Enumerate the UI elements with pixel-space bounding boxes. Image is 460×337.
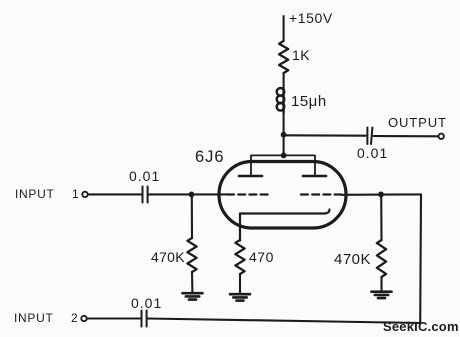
svg-text:1: 1 <box>72 187 79 201</box>
ground (R4) <box>372 292 392 298</box>
svg-text:SeekIC.com: SeekIC.com <box>383 319 459 334</box>
wire: C1 to grid 1 <box>149 193 228 195</box>
wire: plate bus <box>251 155 315 174</box>
node: grid 2 junction <box>378 192 384 198</box>
wire: grid 2 out to corner <box>341 193 421 196</box>
svg-text:6J6: 6J6 <box>195 148 225 166</box>
svg-text:0.01: 0.01 <box>131 295 162 311</box>
ground (R3) <box>230 294 250 300</box>
node +150V supply label <box>289 10 333 26</box>
wire: input1 to C1 <box>88 193 141 195</box>
svg-text:15μh: 15μh <box>291 93 327 110</box>
label OUTPUT <box>388 115 447 130</box>
anode plate right <box>303 175 326 178</box>
value label 470 <box>249 249 274 265</box>
grid 2 (dashed) <box>301 193 341 195</box>
value label 0.01 (input 2) <box>131 295 162 311</box>
wire: to output cap <box>284 134 366 136</box>
svg-text:2: 2 <box>71 311 78 325</box>
wire: C3 to riser <box>148 319 420 324</box>
wire: right feedback riser <box>419 194 422 323</box>
capacitor C1 0.01 (input 1) <box>143 187 148 203</box>
svg-text:INPUT: INPUT <box>14 311 54 325</box>
cathode <box>240 210 330 241</box>
resistor R2 470K <box>187 238 196 272</box>
svg-text:1K: 1K <box>292 47 310 63</box>
value label 0.01 (output) <box>357 145 388 161</box>
resistor R4 470K <box>377 240 386 277</box>
anode plate left <box>239 175 262 178</box>
wire: supply stub <box>283 16 285 41</box>
wire: cap to output terminal <box>374 135 439 137</box>
tube U1 6J6 envelope <box>219 162 346 229</box>
wire: R4 to ground <box>380 277 382 291</box>
value label 470K (right) <box>334 251 371 268</box>
value label 15uh <box>291 93 327 110</box>
svg-text:0.01: 0.01 <box>357 145 388 161</box>
svg-text:470K: 470K <box>334 251 371 268</box>
value label 1K <box>292 47 310 63</box>
svg-text:OUTPUT: OUTPUT <box>388 115 447 130</box>
label INPUT 1 <box>15 187 79 201</box>
label INPUT 2 <box>14 311 78 325</box>
wire: L1 to output node <box>283 113 285 135</box>
node: grid 1 junction <box>189 192 195 198</box>
resistor R1 1K <box>279 41 288 73</box>
svg-text:470: 470 <box>249 249 274 265</box>
svg-text:INPUT: INPUT <box>15 187 55 201</box>
capacitor C3 0.01 (input 2) <box>142 311 147 327</box>
input 1 terminal <box>82 192 87 197</box>
value label 0.01 (input 1) <box>129 168 160 184</box>
svg-text:0.01: 0.01 <box>129 168 160 184</box>
node: output junction <box>281 132 287 138</box>
ground (R2) <box>183 293 203 299</box>
input 2 terminal <box>81 316 86 321</box>
wire: grid2 node down to R4 <box>380 194 382 240</box>
wire: R2 to ground <box>191 272 193 292</box>
inductor L1 15uh <box>277 88 285 113</box>
node: plate bus junction <box>281 153 287 159</box>
svg-text:470K: 470K <box>151 249 185 265</box>
wire: output node to plate bus <box>283 135 285 156</box>
grid 1 (dashed) <box>227 193 271 195</box>
capacitor C2 0.01 (output) <box>367 128 372 145</box>
wire: input2 to C3 <box>87 317 140 319</box>
svg-text:+150V: +150V <box>289 10 333 26</box>
value label 470K <box>151 249 185 265</box>
label 6J6 <box>195 148 225 166</box>
wire: grid1 node down to R2 <box>191 194 193 238</box>
wire: R3 to ground <box>239 274 241 293</box>
output terminal <box>439 134 444 139</box>
resistor R3 470 (cathode) <box>235 240 244 274</box>
wire: R1 to L1 <box>283 73 285 88</box>
